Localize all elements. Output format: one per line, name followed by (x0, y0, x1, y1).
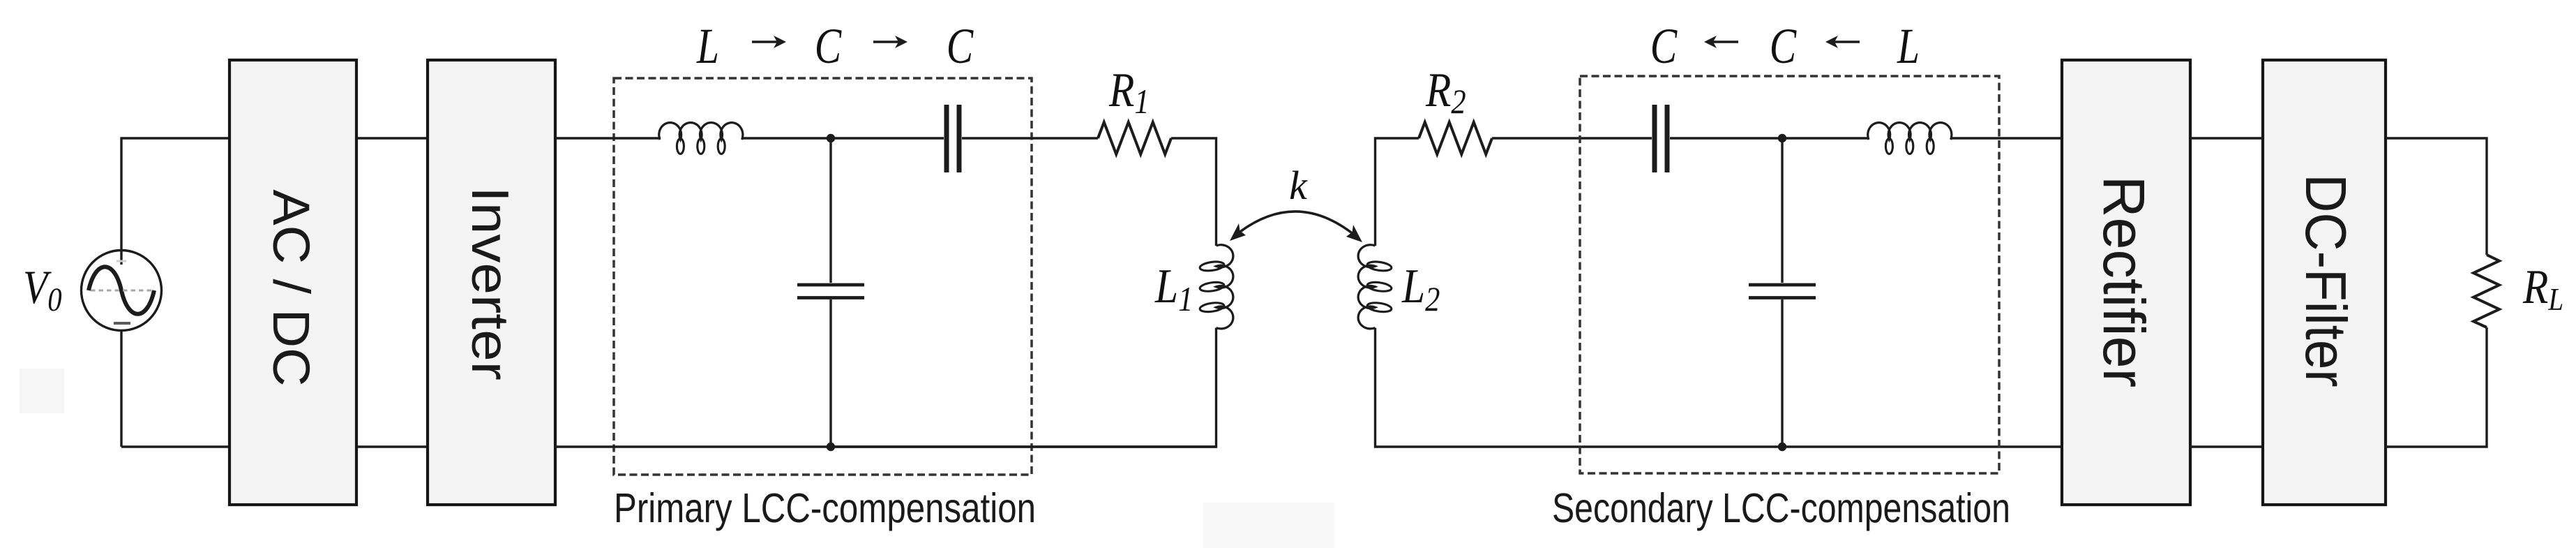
svg-text:C: C (815, 19, 843, 75)
wire: bottom wire V0 to AC/DC (121, 445, 229, 447)
wire: R2 into secondary box (1492, 137, 1652, 139)
svg-text:C: C (947, 19, 974, 75)
svg-text:Primary LCC-compensation: Primary LCC-compensation (614, 485, 1036, 531)
wire: Rectifier to DC-Filter bottom (2190, 445, 2263, 447)
inductor L (secondary series) (1868, 123, 1952, 154)
resistor R1 (1098, 122, 1171, 154)
plus mark (116, 260, 126, 262)
arrow 1 (left) (1704, 36, 1738, 48)
svg-text:L: L (1897, 19, 1920, 75)
minus mark (114, 322, 130, 325)
node dot top primary (827, 134, 835, 142)
svg-text:k: k (1289, 163, 1308, 208)
arrow 2 (873, 36, 907, 48)
wire: AC/DC to Inverter top (356, 137, 428, 139)
node dot top secondary (1778, 134, 1786, 142)
inductor L (primary series) (659, 123, 743, 154)
resistor R2 (1419, 122, 1492, 154)
coil L2 (1358, 245, 1392, 329)
wire: coil to Rectifier (1951, 137, 2062, 139)
wire: L2 to bottom run (1376, 328, 2063, 447)
wire: V0 bottom lead (120, 329, 122, 447)
sine wave inside source (89, 267, 154, 314)
svg-text:Secondary LCC-compensation: Secondary LCC-compensation (1552, 485, 2010, 531)
resistor RL (2473, 255, 2499, 327)
shunt capacitor bottom lead (1781, 299, 1783, 447)
svg-text:C: C (1650, 19, 1678, 75)
svg-text:AC / DC: AC / DC (262, 189, 319, 386)
coil L1 (1199, 245, 1233, 329)
svg-text:DC-Filter: DC-Filter (2293, 174, 2358, 387)
wire: coil to series cap (741, 137, 944, 139)
svg-text:C: C (1770, 19, 1798, 75)
series capacitor C (secondary) plates (1652, 105, 1657, 172)
wire: Rectifier to DC-Filter top (2190, 137, 2263, 139)
wire: AC/DC to Inverter bottom (356, 445, 428, 447)
wire: Inverter to coil (555, 137, 661, 139)
shunt capacitor bottom lead (829, 299, 831, 447)
shunt capacitor (secondary): top lead (1781, 138, 1783, 283)
arrow 2 (left) (1825, 36, 1860, 48)
shunt capacitor plates (1749, 283, 1816, 287)
wire: V0 vertical + top wire to AC/DC (121, 138, 229, 265)
wire: L2 top corner to R2 (1376, 138, 1419, 246)
wire: cap to node (1670, 137, 1868, 139)
svg-text:L: L (696, 19, 719, 75)
arrow 1 (752, 36, 786, 48)
node dot bottom secondary (1778, 443, 1786, 451)
wire: RL to bottom (2386, 327, 2487, 447)
shunt capacitor plates (797, 283, 864, 287)
wire: R1 to L1 corner (1171, 138, 1217, 246)
shunt capacitor C (primary): top lead (829, 138, 831, 283)
faint scan artifact patch (20, 369, 64, 413)
series capacitor C (primary) plates (944, 105, 949, 172)
svg-text:Rectifier: Rectifier (2091, 176, 2157, 387)
coupling arrow k (1235, 212, 1357, 237)
dashed zero line inside source (91, 290, 152, 292)
wire: DC-Filter to RL top (2386, 138, 2487, 255)
wire: bottom primary run (555, 445, 1217, 447)
wire: series cap to R1 (962, 137, 1098, 139)
svg-text:Inverter: Inverter (461, 186, 520, 380)
node dot bottom primary (827, 443, 835, 451)
wire: L1 to bottom (831, 328, 1217, 447)
source V0 circle (82, 251, 162, 331)
